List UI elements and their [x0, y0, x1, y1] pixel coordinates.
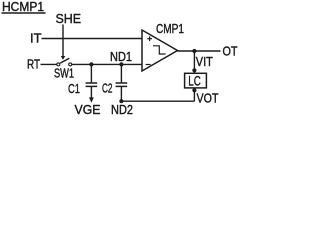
- switch SW1 label: [54, 67, 74, 81]
- net VIT label: [196, 55, 213, 69]
- svg-text:IT: IT: [30, 31, 42, 45]
- svg-text:VGE: VGE: [75, 103, 101, 117]
- switch SW1 right contact: [69, 63, 72, 66]
- junction at C2: [119, 62, 123, 66]
- node ND2 label: [111, 103, 133, 117]
- svg-text:SW1: SW1: [54, 67, 74, 81]
- capacitor C2 top lead: [120, 64, 122, 82]
- node IT label: [30, 31, 42, 45]
- wire output down to LC box: [193, 51, 195, 73]
- hysteresis symbol: [153, 46, 166, 54]
- capacitor C1 top lead: [90, 64, 92, 82]
- junction dot at LC top pin: [192, 68, 196, 72]
- title HCMP1: [2, 0, 44, 14]
- switch SW1 left contact: [57, 63, 60, 66]
- block LC box: [185, 73, 207, 88]
- arrowhead to VGE: [89, 97, 94, 102]
- svg-text:C2: C2: [102, 82, 113, 96]
- arrowhead SHE to SW1: [61, 56, 65, 60]
- svg-text:CMP1: CMP1: [156, 22, 184, 36]
- junction dot at LC bottom pin: [192, 88, 196, 92]
- capacitor C1 bottom lead: [90, 87, 92, 98]
- capacitor C2 label: [102, 82, 113, 96]
- node RT label: [27, 58, 40, 72]
- net VGE label: [75, 103, 101, 117]
- capacitor C1 plates: [86, 82, 98, 84]
- wire IT to comparator + input: [42, 38, 143, 40]
- title underline: [2, 12, 46, 14]
- svg-text:SHE: SHE: [56, 12, 82, 26]
- capacitor C2 plates: [116, 82, 128, 84]
- node OT label: [223, 44, 238, 58]
- svg-text:ND2: ND2: [111, 103, 133, 117]
- svg-text:OT: OT: [223, 44, 238, 58]
- node SHE label: [56, 12, 82, 26]
- capacitor C1 label: [68, 82, 80, 96]
- switch SW1 lever: [60, 58, 69, 63]
- wire SHE vertical control line: [62, 25, 64, 57]
- svg-text:ND1: ND1: [110, 50, 132, 64]
- wire switch to comparator - input: [72, 63, 142, 65]
- junction at ND2: [119, 99, 123, 103]
- net VOT label: [197, 92, 219, 106]
- block LC label: [188, 74, 201, 89]
- capacitor C2 bottom lead: [120, 87, 122, 101]
- node ND1 label: [110, 50, 132, 64]
- svg-text:C1: C1: [68, 82, 80, 96]
- comparator CMP1 label: [156, 22, 184, 36]
- wire comparator output to OT: [178, 50, 221, 52]
- wire ND2 to below LC: [121, 100, 194, 102]
- wire RT to switch: [41, 63, 57, 65]
- svg-text:HCMP1: HCMP1: [2, 0, 44, 14]
- pin - (inverting input): [146, 64, 151, 66]
- junction at VIT: [192, 49, 196, 53]
- pin + (non-inverting input): [147, 38, 152, 40]
- junction at C1: [89, 62, 93, 66]
- svg-text:VIT: VIT: [196, 55, 213, 69]
- op-amp comparator CMP1 body: [142, 30, 178, 71]
- wire LC bottom to ND2 rail: [193, 88, 195, 101]
- svg-text:RT: RT: [27, 58, 40, 72]
- svg-text:VOT: VOT: [197, 92, 219, 106]
- svg-text:LC: LC: [188, 74, 201, 89]
